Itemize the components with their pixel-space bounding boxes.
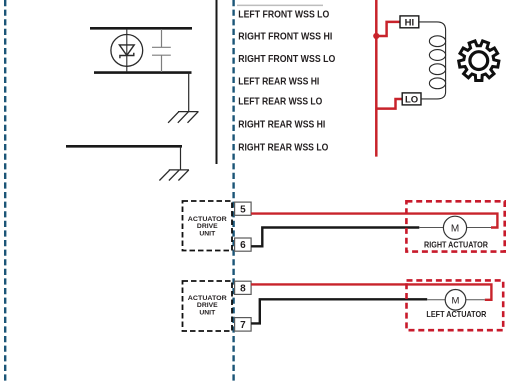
motor M (right actuator)	[443, 216, 466, 239]
motor lead left (left actuator)	[427, 299, 445, 301]
wire red to HI	[376, 22, 400, 36]
wire diode branch	[126, 29, 128, 72]
svg-text:M: M	[452, 295, 460, 306]
ground G2	[159, 170, 189, 181]
motor lead right (left actuator)	[466, 299, 485, 301]
motor lead left (right actuator)	[419, 227, 443, 229]
wire red main (WSS feed)	[375, 0, 378, 157]
svg-text:DRIVE: DRIVE	[197, 223, 218, 230]
wire red to LO	[376, 99, 402, 109]
svg-text:RIGHT FRONT WSS LO: RIGHT FRONT WSS LO	[238, 54, 335, 65]
svg-text:RIGHT ACTUATOR: RIGHT ACTUATOR	[424, 239, 488, 249]
svg-text:8: 8	[240, 283, 246, 294]
motor M (left actuator)	[445, 290, 466, 311]
svg-text:DRIVE: DRIVE	[197, 302, 218, 309]
svg-text:RIGHT REAR WSS LO: RIGHT REAR WSS LO	[238, 143, 328, 154]
pin 6	[235, 238, 252, 251]
wire top bus	[90, 27, 192, 30]
pin 8	[235, 281, 252, 294]
svg-text:LEFT REAR WSS LO: LEFT REAR WSS LO	[238, 97, 322, 108]
svg-text:6: 6	[240, 240, 246, 251]
wire black pin7 to left actuator	[251, 299, 427, 323]
svg-text:UNIT: UNIT	[199, 231, 216, 238]
wire to ground 1	[188, 73, 190, 112]
actuator drive unit box (lower)	[183, 281, 233, 331]
svg-text:5: 5	[240, 204, 246, 215]
svg-text:7: 7	[240, 320, 246, 331]
harness boundary dashed line (center)	[232, 0, 234, 382]
svg-text:ACTUATOR: ACTUATOR	[188, 216, 227, 223]
wire bottom bus	[94, 71, 192, 74]
svg-text:UNIT: UNIT	[199, 309, 216, 316]
svg-text:M: M	[451, 223, 459, 234]
wire second bus	[66, 145, 182, 148]
wire black pin6 to right actuator	[251, 228, 419, 247]
left actuator dashed box	[407, 280, 504, 330]
svg-text:ACTUATOR: ACTUATOR	[188, 295, 227, 302]
svg-text:LO: LO	[405, 95, 418, 106]
tone ring (gear)	[459, 41, 499, 81]
motor lead right (right actuator)	[467, 227, 491, 229]
harness boundary dashed line (left)	[4, 0, 6, 382]
wire red pin5 to right actuator	[251, 214, 497, 228]
bus bar B+ (vertical black bar)	[216, 0, 218, 164]
clipped text row at top edge	[237, 5, 323, 7]
ground G1	[168, 112, 198, 123]
pin 5	[235, 202, 252, 215]
svg-text:LEFT ACTUATOR: LEFT ACTUATOR	[426, 309, 486, 319]
svg-text:RIGHT REAR WSS HI: RIGHT REAR WSS HI	[238, 120, 325, 131]
actuator drive unit box (upper)	[183, 201, 233, 251]
pin 7	[235, 318, 252, 332]
right actuator dashed box	[406, 201, 504, 251]
svg-text:LEFT FRONT WSS LO: LEFT FRONT WSS LO	[238, 9, 329, 20]
terminal LO	[402, 93, 421, 106]
zener diode D1	[111, 35, 143, 67]
junction dot	[373, 33, 379, 39]
svg-text:LEFT REAR WSS HI: LEFT REAR WSS HI	[238, 76, 319, 87]
wire to ground 2	[180, 146, 182, 169]
capacitor C1	[152, 29, 171, 72]
inductor L1 (wheel speed sensor coil)	[419, 22, 446, 99]
svg-text:RIGHT FRONT WSS HI: RIGHT FRONT WSS HI	[238, 32, 332, 43]
wire red pin8 to left actuator	[251, 284, 491, 299]
svg-text:HI: HI	[405, 17, 415, 28]
terminal HI	[400, 16, 419, 29]
